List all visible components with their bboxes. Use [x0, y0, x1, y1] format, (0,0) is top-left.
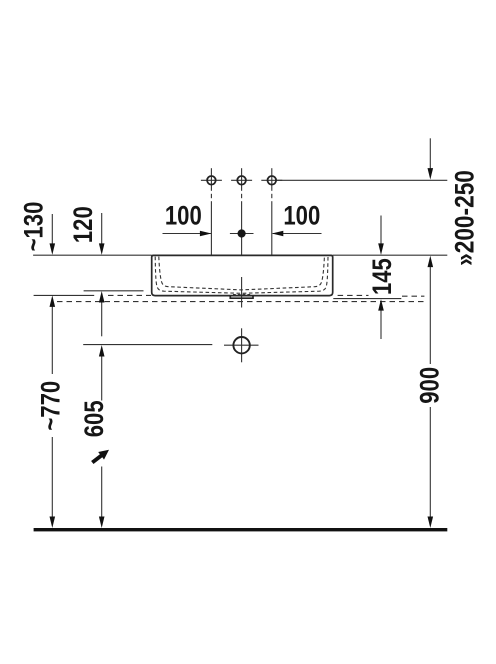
arrow up (605 top)	[99, 345, 105, 357]
drain hole circle	[233, 337, 249, 353]
svg-text:~770: ~770	[37, 381, 67, 431]
arrow down to rim (120)	[99, 243, 105, 255]
svg-text:605: 605	[80, 400, 110, 437]
svg-text:100: 100	[165, 201, 202, 231]
dim ~130 / ~770 shaft below	[51, 301, 53, 374]
svg-text:120: 120	[69, 206, 99, 243]
faucet centre line extension to right	[276, 179, 447, 181]
faucet hole 2	[237, 176, 246, 185]
dashed counter line right of basin	[338, 294, 369, 296]
svg-text:100: 100	[283, 201, 320, 231]
dim line 100 right	[273, 233, 322, 235]
extension line hole1 down to basin	[210, 201, 212, 255]
dim 145 upper shaft	[380, 216, 382, 250]
centre dot cross line	[230, 233, 254, 235]
rim extension line right	[333, 254, 448, 256]
solid line level 130 (counter top left)	[34, 294, 95, 296]
arrow down (200-250)	[428, 168, 434, 180]
dim 120 upper shaft	[101, 213, 103, 245]
arrow down (900 floor)	[428, 517, 434, 529]
basin inner bowl dashed inner contour	[159, 257, 325, 290]
arrow up (900)	[428, 256, 434, 268]
dim ~130 upper shaft	[51, 214, 53, 245]
arrow down to rim (145)	[378, 243, 384, 255]
faucet hole 3	[268, 176, 277, 185]
washbasin outline	[152, 255, 333, 295]
arrow up to counter (130)	[50, 295, 56, 307]
dashed counter line left of basin	[108, 294, 151, 296]
arrow down (770 floor)	[50, 517, 56, 529]
rim extension line left	[33, 254, 152, 256]
extension line hole3 down to basin	[271, 201, 273, 255]
svg-text:900: 900	[416, 367, 446, 404]
svg-text:145: 145	[368, 258, 398, 295]
arrow down (605 floor)	[99, 517, 105, 529]
arrow left (100 right)	[272, 231, 284, 237]
arrow up to counter (145)	[378, 299, 384, 311]
dim 200-250 shaft	[429, 138, 431, 169]
faucet hole circles	[207, 176, 276, 353]
arrows	[50, 168, 434, 528]
basin inner bowl dashed outer contour	[155, 257, 328, 294]
dim 900 shaft	[429, 262, 431, 364]
hole-centre extension line (605)	[83, 344, 212, 346]
dim 605 shaft	[101, 351, 103, 401]
dashed counter line far right	[402, 295, 424, 297]
svg-text:»200-250: »200-250	[449, 170, 479, 266]
arrow up to inner bottom (120)	[99, 291, 105, 303]
basin centre line lower	[241, 277, 243, 308]
drain trap hole crosshair	[224, 344, 259, 346]
faucet hole 2 crosshair	[231, 168, 252, 198]
dim 120 lower shaft	[101, 297, 103, 336]
solid line level 120 (inner bottom extension)	[84, 290, 144, 292]
solid line level 145 (counter top right)	[333, 298, 401, 300]
centre reference dot	[238, 229, 246, 237]
arrow right (100 left)	[200, 231, 212, 237]
dashed lower counter line	[57, 301, 424, 303]
extension line hole2 down to basin	[241, 201, 243, 255]
drain hidden dashes	[233, 294, 251, 296]
dim 145 lower shaft	[380, 305, 382, 339]
dim line 100 left	[163, 233, 211, 235]
floor line	[34, 528, 448, 531]
faucet hole 1	[207, 176, 216, 185]
svg-text:~130: ~130	[20, 202, 50, 252]
height adjust arrow symbol	[91, 450, 109, 464]
arrow down to rim (130)	[50, 243, 56, 255]
drain fitting bracket	[230, 296, 253, 299]
faucet hole 1 crosshair	[201, 168, 222, 198]
faucet hole 3 crosshair	[261, 168, 282, 198]
